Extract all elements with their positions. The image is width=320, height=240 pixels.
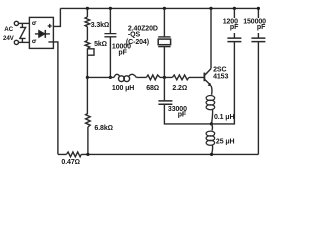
svg-text:100 μH: 100 μH [112,85,134,92]
node top rail / C 10000pF [109,7,112,10]
wire 5k to mid node [86,49,88,78]
resistor 68 ohm [146,75,160,80]
wire collector to top rail [210,8,212,68]
node top rail right corner [257,7,260,10]
node bottom rail left [86,153,89,156]
wire top rail to 3.3k [86,8,88,17]
node mid wire / cap [109,76,112,79]
svg-text:0.47Ω: 0.47Ω [61,159,80,166]
transistor Q1 2SC4153 [204,69,211,86]
wire top rail [60,7,258,9]
wire 3.3k to 5k pot [86,27,88,41]
crystal X1 [158,37,170,47]
bridge internal diode [35,30,50,38]
svg-text:68Ω: 68Ω [146,85,159,92]
wire top rail to cap [109,8,111,33]
wire emitter to coil [210,86,213,95]
wire AC upper lead [19,22,30,24]
AC input terminal upper [14,21,18,25]
capacitor 33000pF [158,101,172,104]
wire right rail lower [257,42,259,155]
potentiometer 5k wiper loop [87,49,94,55]
svg-text:6.8kΩ: 6.8kΩ [94,125,113,132]
wire emitter node to 25uH [211,124,212,130]
resistor 0.47 ohm [66,152,81,157]
bridge input terminal marks [33,22,37,43]
node top rail / 1200pF [233,7,236,10]
label AC 24V [3,26,15,42]
resistor 6.8k [86,113,91,127]
node emitter lower bus [210,122,213,125]
svg-text:pF: pF [230,24,239,31]
node top rail / R branch [86,7,89,10]
capacitor 1200pF [227,38,241,42]
wire top rail to crystal [163,8,165,36]
svg-text:pF: pF [257,24,266,31]
wire 6.8k to bottom rail [87,127,89,154]
svg-text:25 μH: 25 μH [216,138,235,145]
AC input terminal lower [14,40,18,44]
node mid left [86,76,89,79]
node top rail / crystal [163,7,166,10]
wire mid node to 33000pF [163,77,165,100]
svg-text:2SC: 2SC [213,66,226,73]
wire 33000pF to lower bus [164,104,211,124]
node bottom rail / 25uH [210,153,213,156]
node mid wire / crystal [163,76,166,79]
svg-text:-QS: -QS [128,31,141,38]
wire top rail to 1200pF [233,8,235,38]
wire AC lower lead [19,41,30,43]
svg-text:pF: pF [178,112,187,119]
resistor 2.2 ohm [172,75,189,80]
resistor 3.3k [85,17,90,27]
wire cap to mid wire [109,37,111,78]
inductor 100uH [114,74,136,81]
wire crystal to mid node [163,47,165,78]
bridge rectifier D1 body [29,17,53,48]
svg-text:pF: pF [118,50,127,57]
svg-text:5kΩ: 5kΩ [94,41,107,48]
svg-text:0.1 μH: 0.1 μH [214,114,234,121]
capacitor 150000pF [251,38,265,42]
wire bridge plus output to top rail [53,8,60,26]
wire right rail upper [257,8,259,38]
bridge plus mark [48,24,52,28]
wire lower bus to 1200pF [211,42,234,124]
wire mid node down to 6.8k [86,77,88,113]
svg-text:2.2Ω: 2.2Ω [172,85,187,92]
inductor 25uH [206,131,215,154]
capacitor 10000pF [104,34,116,37]
svg-text:4153: 4153 [213,73,228,80]
inductor 0.1uH [206,96,215,124]
svg-text:AC: AC [4,26,13,33]
wire bottom rail [58,153,259,155]
potentiometer 5k [85,40,90,48]
node top rail / collector [209,7,212,10]
svg-text:(C-204): (C-204) [126,39,149,46]
surge suppressor Z symbol [20,23,26,42]
wire mid bus segments [87,76,203,78]
svg-text:3.3kΩ: 3.3kΩ [91,22,110,29]
wire bridge minus output down left side [48,42,58,154]
svg-text:24V: 24V [3,35,15,42]
